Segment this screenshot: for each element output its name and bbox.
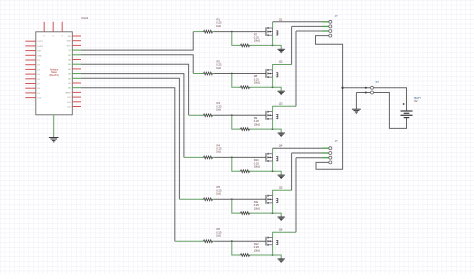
svg-text:GND: GND [37,55,42,57]
svg-text:J?: J? [335,14,338,18]
svg-text:10kΩ: 10kΩ [254,81,260,85]
svg-text:(Rev3.0): (Rev3.0) [50,74,59,77]
svg-text:Q5: Q5 [279,185,283,189]
svg-text:AREF: AREF [65,91,71,94]
svg-text:Q2: Q2 [279,60,283,64]
svg-text:1kΩ: 1kΩ [216,66,221,70]
svg-text:Q6: Q6 [279,227,283,231]
svg-text:10kΩ: 10kΩ [254,39,260,43]
svg-text:S?: S? [376,80,380,84]
svg-text:1kΩ: 1kΩ [216,150,221,154]
svg-text:10kΩ: 10kΩ [254,165,260,169]
svg-text:1kΩ: 1kΩ [216,24,221,28]
svg-text:GND: GND [66,41,71,43]
svg-text:D1/TX: D1/TX [37,41,43,43]
svg-text:1kΩ: 1kΩ [216,192,221,196]
svg-text:VIN: VIN [67,36,71,38]
svg-text:Q1: Q1 [279,18,283,22]
svg-text:10kΩ: 10kΩ [254,206,260,210]
svg-text:1kΩ: 1kΩ [216,234,221,238]
svg-text:9V: 9V [414,99,418,103]
svg-text:Q3: Q3 [279,101,283,105]
svg-text:D0/RX: D0/RX [37,46,44,48]
svg-text:Q4: Q4 [279,144,283,148]
svg-text:1kΩ: 1kΩ [216,108,221,112]
svg-text:10kΩ: 10kΩ [254,248,260,252]
svg-text:10kΩ: 10kΩ [254,122,260,126]
svg-text:J?: J? [335,139,338,143]
svg-text:Part1: Part1 [82,16,89,20]
